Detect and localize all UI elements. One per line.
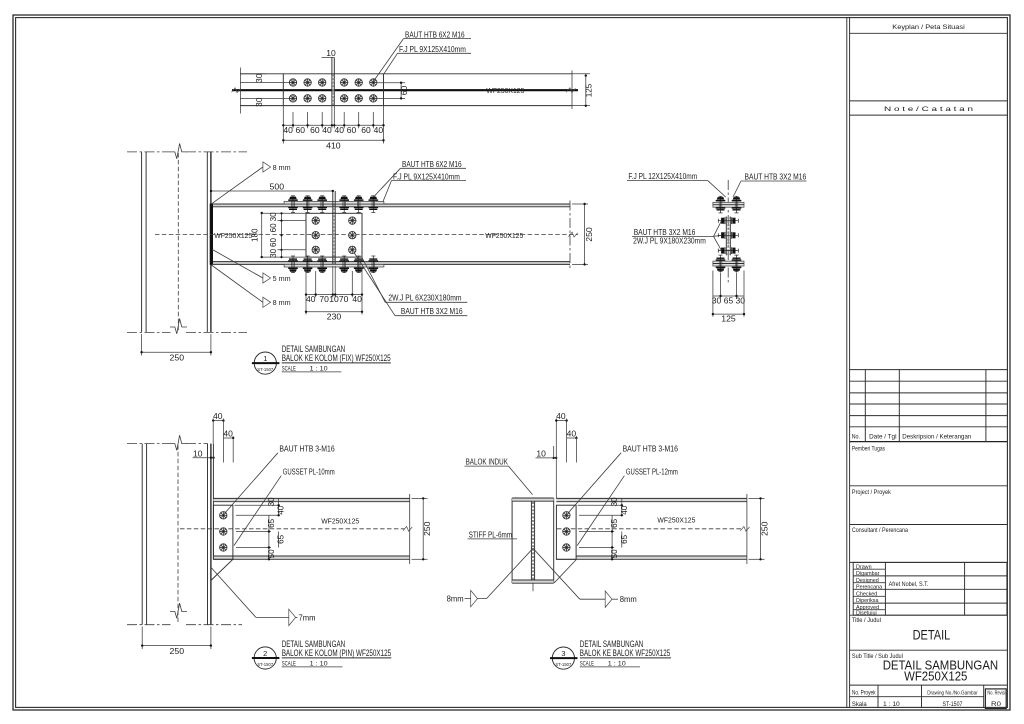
svg-text:WF250X125: WF250X125 [214, 231, 252, 240]
weld flag 8 mm top [263, 162, 271, 172]
svg-text:50: 50 [610, 549, 619, 559]
svg-text:40: 40 [277, 505, 286, 515]
svg-text:BALOK INDUK: BALOK INDUK [466, 457, 509, 466]
gusset bottom chamfer [211, 559, 233, 580]
revision table rows [850, 380, 1008, 382]
keyplan box [850, 100, 1008, 102]
svg-text:125: 125 [721, 314, 736, 324]
dim 40 first (detail 3) [556, 420, 566, 422]
top F.J plate [284, 201, 384, 204]
svg-text:60: 60 [296, 125, 306, 135]
svg-text:40: 40 [352, 294, 362, 304]
note box bottom / revision table top [850, 369, 1008, 371]
svg-text:40: 40 [567, 428, 577, 438]
gusset corner weld leader [554, 560, 576, 583]
svg-text:Diperiksa: Diperiksa [856, 598, 878, 604]
svg-text:65: 65 [620, 534, 629, 544]
svg-text:250: 250 [170, 352, 185, 362]
right vertical dim chain 30/40/65/65/50 [278, 498, 280, 515]
svg-text:30: 30 [610, 497, 619, 507]
svg-text:50: 50 [267, 549, 276, 559]
svg-text:60: 60 [269, 223, 278, 233]
svg-text:Checked: Checked [856, 591, 877, 597]
weld flag 5 mm [263, 273, 271, 283]
svg-text:No. Revisi: No. Revisi [987, 690, 1005, 696]
top flange bolts (section) [716, 196, 726, 213]
bottom F.J plate [284, 264, 384, 267]
svg-text:Perencana: Perencana [856, 585, 882, 591]
web + 2W.J plates (section) [725, 217, 727, 256]
svg-text:Title / Judul: Title / Judul [852, 617, 881, 624]
beam top flange [213, 204, 570, 207]
svg-text:60: 60 [361, 125, 371, 135]
title box [850, 614, 1008, 616]
svg-text:ST-1507: ST-1507 [257, 367, 273, 372]
detail 1 title bubble [254, 352, 276, 374]
svg-text:40: 40 [322, 125, 332, 135]
svg-text:BAUT HTB 3X2 M16: BAUT HTB 3X2 M16 [745, 173, 807, 182]
svg-text:7mm: 7mm [299, 613, 316, 622]
svg-text:60: 60 [399, 85, 409, 95]
svg-text:30: 30 [267, 497, 276, 507]
svg-text:60: 60 [269, 237, 278, 247]
svg-text:40: 40 [213, 411, 223, 421]
signature row labels [853, 568, 885, 570]
dim 40 second (detail 3) [567, 437, 577, 439]
svg-text:Designed: Designed [856, 578, 879, 584]
weld flag 8 mm bottom [263, 297, 271, 307]
no revisi box [985, 689, 1006, 709]
joint gap verticals [332, 191, 334, 264]
svg-text:40: 40 [335, 125, 345, 135]
svg-text:65: 65 [724, 296, 734, 306]
svg-text:250: 250 [422, 521, 432, 536]
svg-text:BALOK KE BALOK WF250X125: BALOK KE BALOK WF250X125 [580, 648, 671, 658]
stiffener weld V right leg + 8mm flag right [533, 548, 580, 599]
svg-text:ST-1507: ST-1507 [257, 662, 273, 667]
column centerline (detail 2) [177, 445, 179, 623]
bolts row 2 [289, 95, 296, 102]
top flange + F.J plate (section) [713, 202, 744, 207]
svg-text:40: 40 [223, 428, 233, 438]
svg-text:BAUT HTB 3-M16: BAUT HTB 3-M16 [279, 445, 335, 454]
svg-text:Disetujui: Disetujui [856, 611, 877, 617]
bottom dim extension lines [282, 106, 284, 144]
left edge dim 30/30 [239, 68, 241, 114]
svg-text:Keyplan / Peta Situasi: Keyplan / Peta Situasi [892, 24, 965, 31]
dim 40 first [213, 420, 223, 422]
web bolts (section, horizontal) [718, 217, 738, 224]
svg-text:8 mm: 8 mm [273, 298, 291, 307]
beam top flange (detail 2) [213, 498, 409, 501]
svg-text:GUSSET PL-10mm: GUSSET PL-10mm [283, 468, 335, 477]
svg-text:DETAIL: DETAIL [913, 626, 951, 642]
column dim 250 (detail 2) [141, 627, 143, 650]
dim 410 row [283, 139, 383, 141]
web plate vertical dims 180 / 30 60 60 30 [262, 212, 306, 214]
svg-text:ST-1507: ST-1507 [943, 701, 963, 708]
svg-text:10: 10 [536, 449, 546, 459]
svg-text:65: 65 [277, 534, 286, 544]
bottom flange + plate (section) [713, 261, 744, 266]
svg-text:40: 40 [620, 505, 629, 515]
svg-text:F.J PL 9X125X410mm: F.J PL 9X125X410mm [399, 45, 466, 54]
svg-text:Drawing No./No.Gambar: Drawing No./No.Gambar [927, 690, 978, 696]
right break chevron [566, 88, 575, 93]
secondary beam top flange (detail 3) [556, 498, 747, 501]
svg-text:Consultant / Perencana: Consultant / Perencana [852, 527, 909, 534]
keyplan header box [850, 32, 1008, 34]
note header box [850, 114, 1008, 116]
svg-text:GUSSET PL-12mm: GUSSET PL-12mm [626, 468, 678, 477]
svg-text:1 : 10: 1 : 10 [883, 701, 900, 708]
svg-text:Date / Tgl: Date / Tgl [869, 434, 896, 441]
svg-text:1: 1 [263, 354, 267, 363]
svg-text:250: 250 [584, 227, 594, 242]
column flanges (detail 2) [141, 444, 143, 625]
beam bottom flange [213, 261, 570, 263]
beam end break + dim 250 (detail 2) [409, 494, 411, 564]
gusset bolts (detail 3) [563, 512, 570, 519]
gusset bolts (detail 2) [220, 512, 227, 519]
beam centerline (detail 2) [180, 528, 405, 530]
svg-text:Deskripsion / Keterangan: Deskripsion / Keterangan [902, 434, 972, 441]
column bottom break chain [127, 331, 171, 333]
detail 2 title bubble [254, 647, 276, 669]
beam centerline (detail 3) [557, 528, 742, 530]
dim 500 [211, 190, 333, 192]
svg-text:250: 250 [170, 646, 185, 656]
beam end / gusset edge line [212, 444, 214, 560]
svg-text:10: 10 [329, 294, 339, 304]
svg-text:30: 30 [269, 248, 278, 258]
svg-text:8mm: 8mm [620, 595, 637, 604]
svg-text:N o t e / C a t a t a n: N o t e / C a t a t a n [884, 106, 973, 113]
svg-text:30: 30 [269, 212, 278, 222]
svg-text:Drawn: Drawn [856, 564, 872, 570]
svg-text:F.J PL 12X125X410mm: F.J PL 12X125X410mm [628, 172, 697, 181]
svg-text:BALOK KE KOLOM (PIN) WF250X125: BALOK KE KOLOM (PIN) WF250X125 [282, 648, 392, 658]
svg-text:BALOK KE KOLOM (FIX) WF250X125: BALOK KE KOLOM (FIX) WF250X125 [282, 353, 391, 363]
bottom flange bolts [288, 256, 298, 273]
column bottom break chain (detail 2) [127, 624, 171, 626]
svg-text:30: 30 [736, 296, 746, 306]
svg-text:250: 250 [759, 521, 769, 536]
svg-text:10: 10 [193, 448, 203, 458]
main beam (balok induk) outline [511, 498, 513, 583]
svg-text:2W.J PL 9X180X230mm: 2W.J PL 9X180X230mm [633, 237, 706, 246]
svg-text:65: 65 [610, 518, 619, 528]
bottom dims 40 70 10 70 40 / 230 [305, 268, 307, 315]
svg-text:180: 180 [251, 228, 260, 242]
dim 125 right [572, 73, 590, 75]
column top break chain [127, 151, 171, 153]
top flange bolts [288, 196, 298, 213]
plan right cut line [571, 71, 573, 110]
svg-text:BAUT HTB 3X2 M16: BAUT HTB 3X2 M16 [401, 307, 463, 316]
svg-text:60: 60 [310, 125, 320, 135]
main beam web + stiffener [530, 501, 532, 580]
bottom flange bolts (section) [716, 255, 726, 272]
svg-text:30: 30 [712, 296, 722, 306]
bottom dim row 40 60 60 40 40 60 60 40 [283, 124, 383, 126]
svg-text:Digambar: Digambar [856, 571, 880, 577]
web splice plate [306, 213, 362, 257]
section bottom dims 30 65 30 / 125 [712, 271, 714, 317]
svg-text:40: 40 [306, 294, 316, 304]
column top break chain (detail 2) [127, 443, 171, 445]
beam centerline [155, 234, 578, 236]
svg-text:5 mm: 5 mm [273, 274, 291, 283]
svg-text:No.: No. [852, 434, 861, 441]
svg-text:70: 70 [319, 294, 329, 304]
svg-text:40: 40 [556, 411, 566, 421]
svg-text:40: 40 [374, 125, 384, 135]
svg-text:70: 70 [339, 294, 349, 304]
left break chevron [232, 88, 241, 93]
section centerline [727, 180, 729, 282]
bottom info rows [850, 696, 984, 698]
right vertical dim chain 30/40/65/65/50 (detail 3) [621, 498, 623, 515]
secondary beam bottom flange (detail 3) [576, 555, 747, 557]
gusset plate (detail 3) [556, 505, 576, 559]
svg-text:R0: R0 [991, 701, 1002, 708]
beam right break + dim 250 [569, 201, 571, 269]
gusset plate (detail 2) [213, 505, 233, 559]
svg-text:Skala: Skala [852, 701, 867, 708]
column flanges [141, 152, 143, 333]
bolt ext lines [236, 514, 280, 516]
svg-text:3: 3 [561, 649, 565, 658]
svg-text:BAUT HTB 3X2 M16: BAUT HTB 3X2 M16 [634, 228, 696, 237]
svg-text:STIFF PL-6mm: STIFF PL-6mm [469, 531, 513, 540]
svg-text:ST-1507: ST-1507 [555, 662, 571, 667]
svg-text:30: 30 [254, 97, 264, 107]
weld 7mm leader + flag [211, 567, 256, 617]
svg-text:WF250X125: WF250X125 [485, 231, 523, 240]
svg-text:500: 500 [270, 181, 285, 191]
svg-text:WF250X125: WF250X125 [486, 86, 524, 95]
stiffener weld V left leg + 8mm flag left [487, 548, 534, 598]
svg-text:8 mm: 8 mm [273, 163, 291, 172]
revision table columns [864, 370, 866, 442]
column dim 250 [141, 334, 143, 356]
svg-text:F.J PL 9X125X410mm: F.J PL 9X125X410mm [393, 172, 460, 181]
svg-text:65: 65 [267, 518, 276, 528]
svg-text:BAUT HTB 6X2 M16: BAUT HTB 6X2 M16 [402, 160, 462, 169]
detail 3 title bubble [552, 647, 574, 669]
svg-text:8mm: 8mm [447, 595, 464, 604]
svg-text:60: 60 [347, 125, 357, 135]
splice plate F.J PL edges [282, 74, 284, 106]
beam plan outline [240, 73, 572, 75]
web bolts [312, 217, 319, 224]
svg-text:30: 30 [254, 73, 264, 83]
dim 40 second [223, 437, 233, 439]
svg-text:40: 40 [283, 125, 293, 135]
beam bottom flange (detail 2) [213, 555, 409, 557]
joint gap 10 [331, 58, 333, 106]
svg-text:410: 410 [326, 141, 341, 151]
svg-text:BAUT HTB 3-M16: BAUT HTB 3-M16 [623, 445, 679, 454]
svg-text:No. Proyek: No. Proyek [852, 689, 876, 696]
signature table [853, 562, 1007, 615]
svg-text:WF250X125: WF250X125 [904, 669, 967, 683]
svg-text:125: 125 [584, 83, 594, 97]
svg-text:WF250X125: WF250X125 [321, 516, 359, 525]
svg-text:WF250X125: WF250X125 [657, 515, 695, 524]
svg-text:2W.J PL 6X230X180mm: 2W.J PL 6X230X180mm [388, 294, 461, 303]
svg-text:Afret Nobel, S.T.: Afret Nobel, S.T. [889, 581, 929, 588]
dim 60 between bolt rows [378, 82, 406, 84]
bolt ext lines (detail 3) [579, 514, 623, 516]
end plate (black) [210, 204, 213, 265]
svg-text:230: 230 [327, 311, 342, 321]
column centerline [177, 153, 179, 331]
svg-text:10: 10 [326, 48, 336, 58]
bolts row 1 [289, 79, 296, 86]
svg-text:2: 2 [263, 649, 267, 658]
svg-text:Project / Proyek: Project / Proyek [852, 489, 892, 496]
svg-text:Pemberi Tugas: Pemberi Tugas [852, 445, 885, 452]
beam end break + dim 250 (detail 3) [746, 494, 748, 564]
beam web thick center line [232, 89, 578, 91]
